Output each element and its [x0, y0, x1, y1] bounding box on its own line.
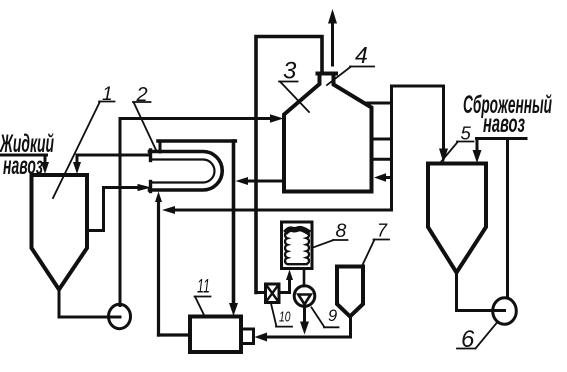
svg-text:5: 5: [461, 123, 472, 144]
svg-text:6: 6: [461, 326, 475, 353]
svg-text:3: 3: [283, 58, 297, 85]
svg-text:навоз: навоз: [483, 110, 525, 138]
svg-text:1: 1: [102, 84, 113, 105]
svg-text:9: 9: [328, 307, 337, 325]
svg-text:11: 11: [197, 277, 210, 298]
svg-text:7: 7: [377, 221, 388, 241]
svg-text:4: 4: [355, 42, 368, 68]
svg-text:8: 8: [336, 220, 347, 242]
svg-text:10: 10: [279, 309, 291, 326]
svg-text:навоз: навоз: [3, 152, 43, 180]
svg-text:2: 2: [136, 84, 148, 106]
